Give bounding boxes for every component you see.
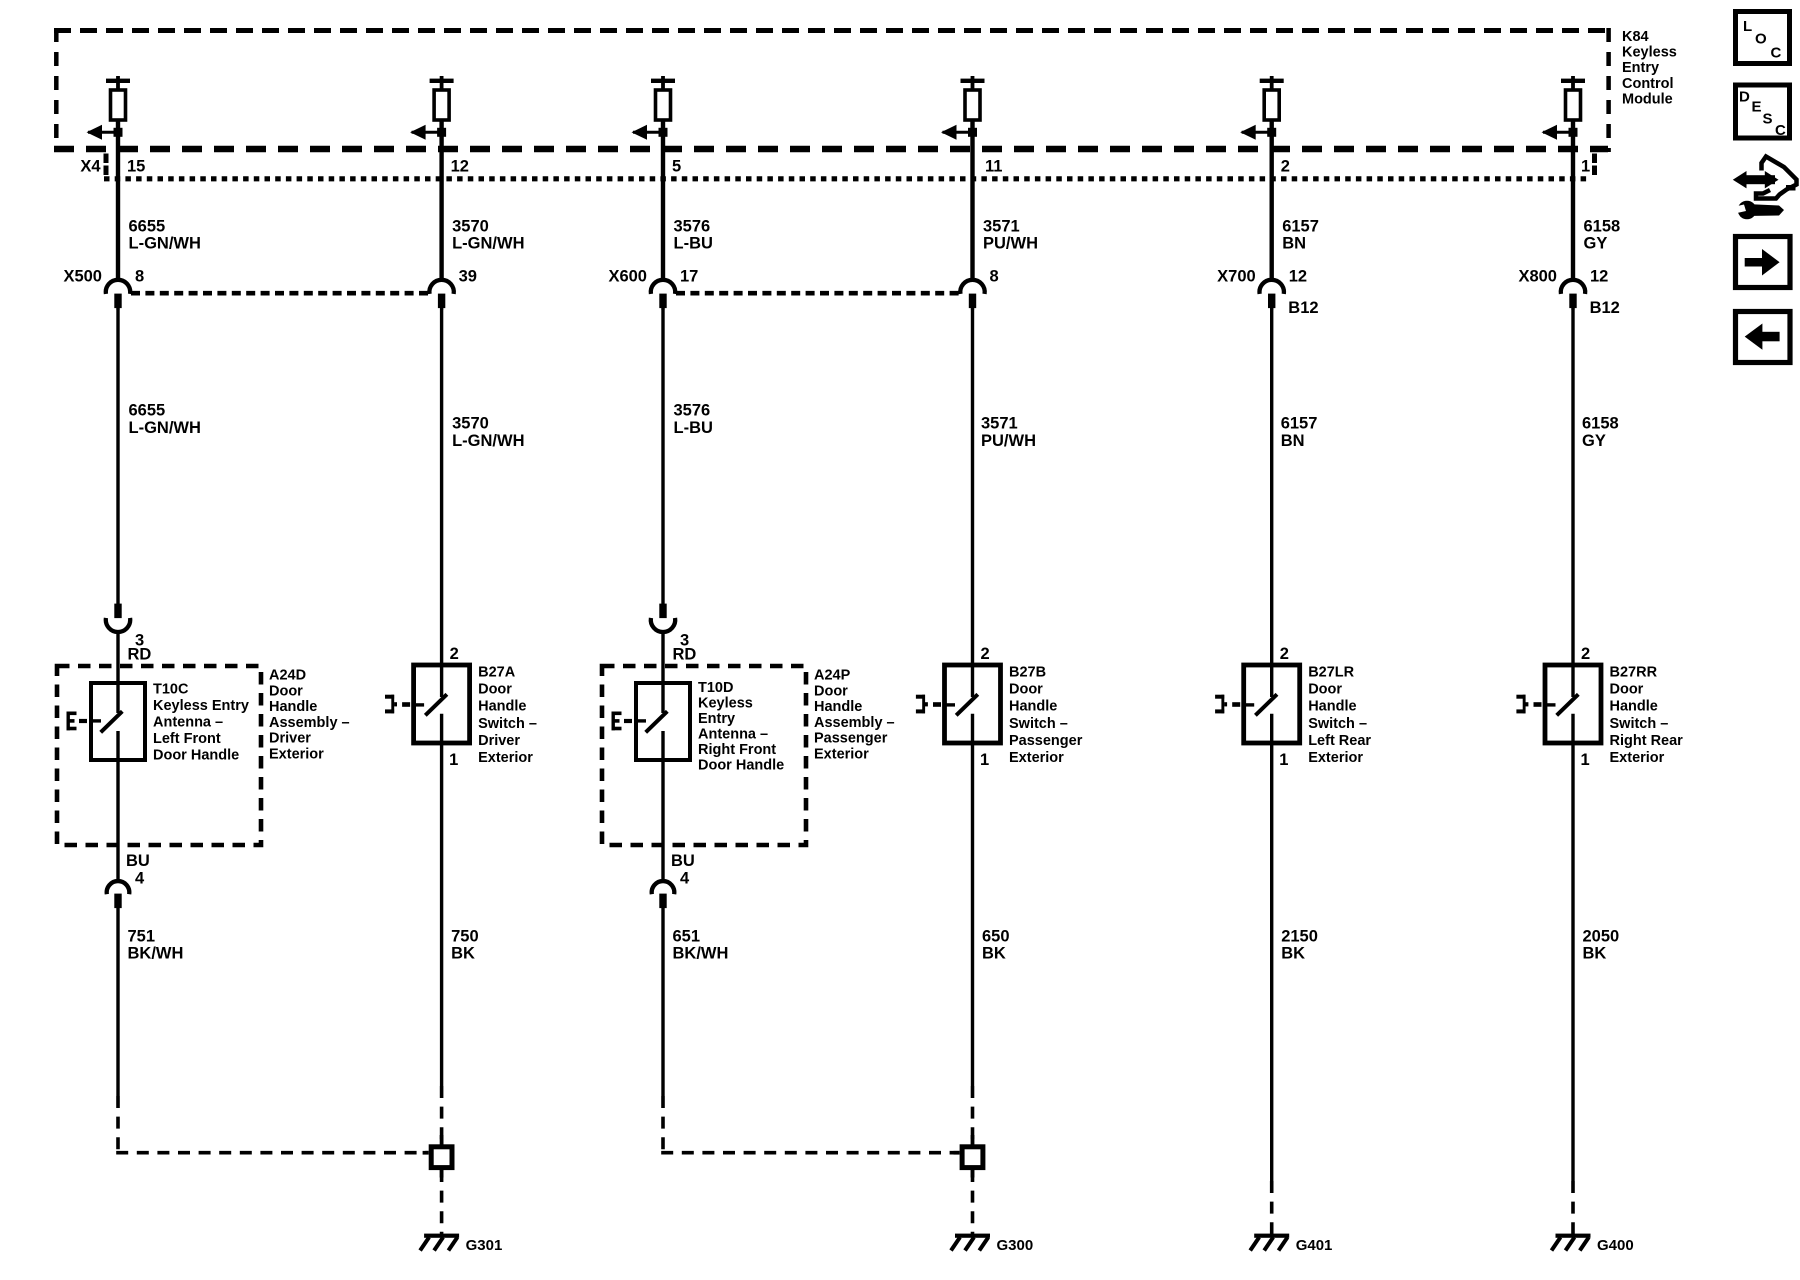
svg-text:Assembly –: Assembly – xyxy=(814,715,895,731)
svg-text:Exterior: Exterior xyxy=(478,750,533,766)
svg-text:Left Front: Left Front xyxy=(153,731,221,747)
svg-text:Exterior: Exterior xyxy=(1009,750,1064,766)
svg-text:BK/WH: BK/WH xyxy=(128,945,184,963)
svg-text:15: 15 xyxy=(127,158,145,176)
svg-text:Door Handle: Door Handle xyxy=(698,758,784,774)
svg-text:Handle: Handle xyxy=(814,699,862,715)
svg-text:G301: G301 xyxy=(466,1237,503,1254)
svg-text:Keyless: Keyless xyxy=(698,696,753,712)
svg-text:Module: Module xyxy=(1622,91,1673,107)
svg-text:B27LR: B27LR xyxy=(1308,665,1354,681)
svg-text:Handle: Handle xyxy=(1009,699,1057,715)
svg-text:GY: GY xyxy=(1582,432,1606,450)
svg-text:Assembly –: Assembly – xyxy=(269,715,350,731)
svg-text:Passenger: Passenger xyxy=(814,731,888,747)
svg-text:T10D: T10D xyxy=(698,680,733,696)
svg-text:X4: X4 xyxy=(80,158,101,176)
svg-text:BK: BK xyxy=(982,945,1006,963)
svg-text:L-BU: L-BU xyxy=(674,419,713,437)
svg-text:6655: 6655 xyxy=(129,218,166,236)
svg-text:RD: RD xyxy=(673,646,697,664)
svg-text:L: L xyxy=(1743,18,1752,35)
svg-text:G300: G300 xyxy=(997,1237,1034,1254)
svg-text:D: D xyxy=(1739,89,1750,106)
svg-text:2: 2 xyxy=(1281,158,1290,176)
svg-text:Switch –: Switch – xyxy=(1610,716,1669,732)
svg-text:Door Handle: Door Handle xyxy=(153,748,239,764)
svg-text:Handle: Handle xyxy=(478,699,526,715)
svg-text:GY: GY xyxy=(1584,235,1608,253)
svg-text:2: 2 xyxy=(981,645,990,663)
svg-text:Exterior: Exterior xyxy=(814,747,869,763)
svg-text:Handle: Handle xyxy=(1610,699,1658,715)
svg-text:3570: 3570 xyxy=(452,218,489,236)
svg-text:B27A: B27A xyxy=(478,665,516,681)
svg-text:Door: Door xyxy=(478,682,512,698)
svg-text:Control: Control xyxy=(1622,76,1674,92)
svg-text:6655: 6655 xyxy=(129,402,166,420)
svg-text:3571: 3571 xyxy=(981,415,1018,433)
svg-text:1: 1 xyxy=(980,751,989,769)
svg-text:4: 4 xyxy=(135,870,145,888)
svg-text:650: 650 xyxy=(982,928,1010,946)
svg-text:2050: 2050 xyxy=(1583,928,1620,946)
svg-text:Door: Door xyxy=(1308,682,1342,698)
svg-text:3571: 3571 xyxy=(983,218,1020,236)
svg-text:1: 1 xyxy=(449,751,458,769)
svg-text:Exterior: Exterior xyxy=(1308,750,1363,766)
svg-text:Entry: Entry xyxy=(1622,60,1659,76)
svg-text:O: O xyxy=(1755,31,1767,48)
svg-text:2: 2 xyxy=(1581,645,1590,663)
svg-text:750: 750 xyxy=(451,928,479,946)
svg-text:X700: X700 xyxy=(1217,268,1256,286)
svg-text:Antenna –: Antenna – xyxy=(698,727,768,743)
svg-text:X500: X500 xyxy=(63,268,102,286)
svg-text:X600: X600 xyxy=(608,268,647,286)
svg-text:39: 39 xyxy=(459,268,477,286)
svg-text:Right Rear: Right Rear xyxy=(1610,733,1684,749)
svg-text:Handle: Handle xyxy=(269,699,317,715)
svg-text:12: 12 xyxy=(1590,268,1608,286)
svg-text:2: 2 xyxy=(1280,645,1289,663)
svg-text:Right Front: Right Front xyxy=(698,742,776,758)
svg-text:Switch –: Switch – xyxy=(478,716,537,732)
svg-text:A24D: A24D xyxy=(269,668,306,684)
svg-text:B27B: B27B xyxy=(1009,665,1046,681)
svg-text:BK: BK xyxy=(1583,945,1607,963)
svg-text:12: 12 xyxy=(1289,268,1307,286)
svg-text:BU: BU xyxy=(671,852,695,870)
svg-text:L-GN/WH: L-GN/WH xyxy=(129,419,201,437)
svg-text:6158: 6158 xyxy=(1582,415,1619,433)
svg-text:6158: 6158 xyxy=(1584,218,1621,236)
svg-text:T10C: T10C xyxy=(153,682,189,698)
svg-text:B27RR: B27RR xyxy=(1610,665,1658,681)
svg-text:4: 4 xyxy=(680,870,690,888)
svg-text:Entry: Entry xyxy=(698,711,735,727)
svg-text:Door: Door xyxy=(1610,682,1644,698)
svg-text:Exterior: Exterior xyxy=(1610,750,1665,766)
svg-text:B12: B12 xyxy=(1590,299,1620,317)
svg-text:1: 1 xyxy=(1581,158,1590,176)
svg-text:11: 11 xyxy=(985,158,1002,176)
svg-text:6157: 6157 xyxy=(1282,218,1319,236)
svg-text:BU: BU xyxy=(126,852,150,870)
svg-text:3570: 3570 xyxy=(452,415,489,433)
svg-text:L-GN/WH: L-GN/WH xyxy=(452,432,524,450)
svg-text:651: 651 xyxy=(673,928,701,946)
svg-text:PU/WH: PU/WH xyxy=(981,432,1036,450)
svg-text:Keyless: Keyless xyxy=(1622,45,1677,61)
svg-text:6157: 6157 xyxy=(1281,415,1318,433)
svg-text:Door: Door xyxy=(269,683,303,699)
svg-text:Driver: Driver xyxy=(478,733,520,749)
svg-text:K84: K84 xyxy=(1622,29,1649,45)
svg-text:G400: G400 xyxy=(1597,1237,1634,1254)
svg-text:17: 17 xyxy=(680,268,698,286)
svg-text:C: C xyxy=(1775,122,1786,139)
svg-text:PU/WH: PU/WH xyxy=(983,235,1038,253)
svg-text:A24P: A24P xyxy=(814,668,851,684)
svg-text:Switch –: Switch – xyxy=(1009,716,1068,732)
svg-text:BN: BN xyxy=(1282,235,1306,253)
svg-text:RD: RD xyxy=(128,646,152,664)
svg-text:3576: 3576 xyxy=(674,218,711,236)
svg-text:2: 2 xyxy=(450,645,459,663)
svg-text:L-BU: L-BU xyxy=(674,235,713,253)
svg-text:Passenger: Passenger xyxy=(1009,733,1083,749)
svg-text:Antenna –: Antenna – xyxy=(153,715,223,731)
svg-text:12: 12 xyxy=(451,158,469,176)
svg-text:Exterior: Exterior xyxy=(269,747,324,763)
svg-text:Door: Door xyxy=(1009,682,1043,698)
svg-text:5: 5 xyxy=(672,158,681,176)
svg-text:2150: 2150 xyxy=(1281,928,1318,946)
svg-text:BK: BK xyxy=(1281,945,1305,963)
svg-text:BK/WH: BK/WH xyxy=(673,945,729,963)
svg-text:G401: G401 xyxy=(1296,1237,1333,1254)
svg-text:BK: BK xyxy=(451,945,475,963)
svg-text:X800: X800 xyxy=(1518,268,1557,286)
svg-text:C: C xyxy=(1771,45,1782,62)
svg-text:B12: B12 xyxy=(1288,299,1318,317)
svg-text:Door: Door xyxy=(814,683,848,699)
svg-text:L-GN/WH: L-GN/WH xyxy=(452,235,524,253)
svg-text:Switch –: Switch – xyxy=(1308,716,1367,732)
svg-text:Driver: Driver xyxy=(269,731,311,747)
svg-text:Handle: Handle xyxy=(1308,699,1356,715)
svg-text:8: 8 xyxy=(135,268,144,286)
svg-text:L-GN/WH: L-GN/WH xyxy=(129,235,201,253)
svg-text:E: E xyxy=(1752,99,1762,116)
svg-text:751: 751 xyxy=(128,928,156,946)
svg-text:3576: 3576 xyxy=(674,402,711,420)
svg-text:1: 1 xyxy=(1279,751,1288,769)
svg-text:S: S xyxy=(1763,111,1773,128)
svg-text:8: 8 xyxy=(990,268,999,286)
svg-text:Keyless Entry: Keyless Entry xyxy=(153,698,249,714)
svg-text:Left Rear: Left Rear xyxy=(1308,733,1371,749)
svg-text:1: 1 xyxy=(1581,751,1590,769)
svg-text:BN: BN xyxy=(1281,432,1305,450)
